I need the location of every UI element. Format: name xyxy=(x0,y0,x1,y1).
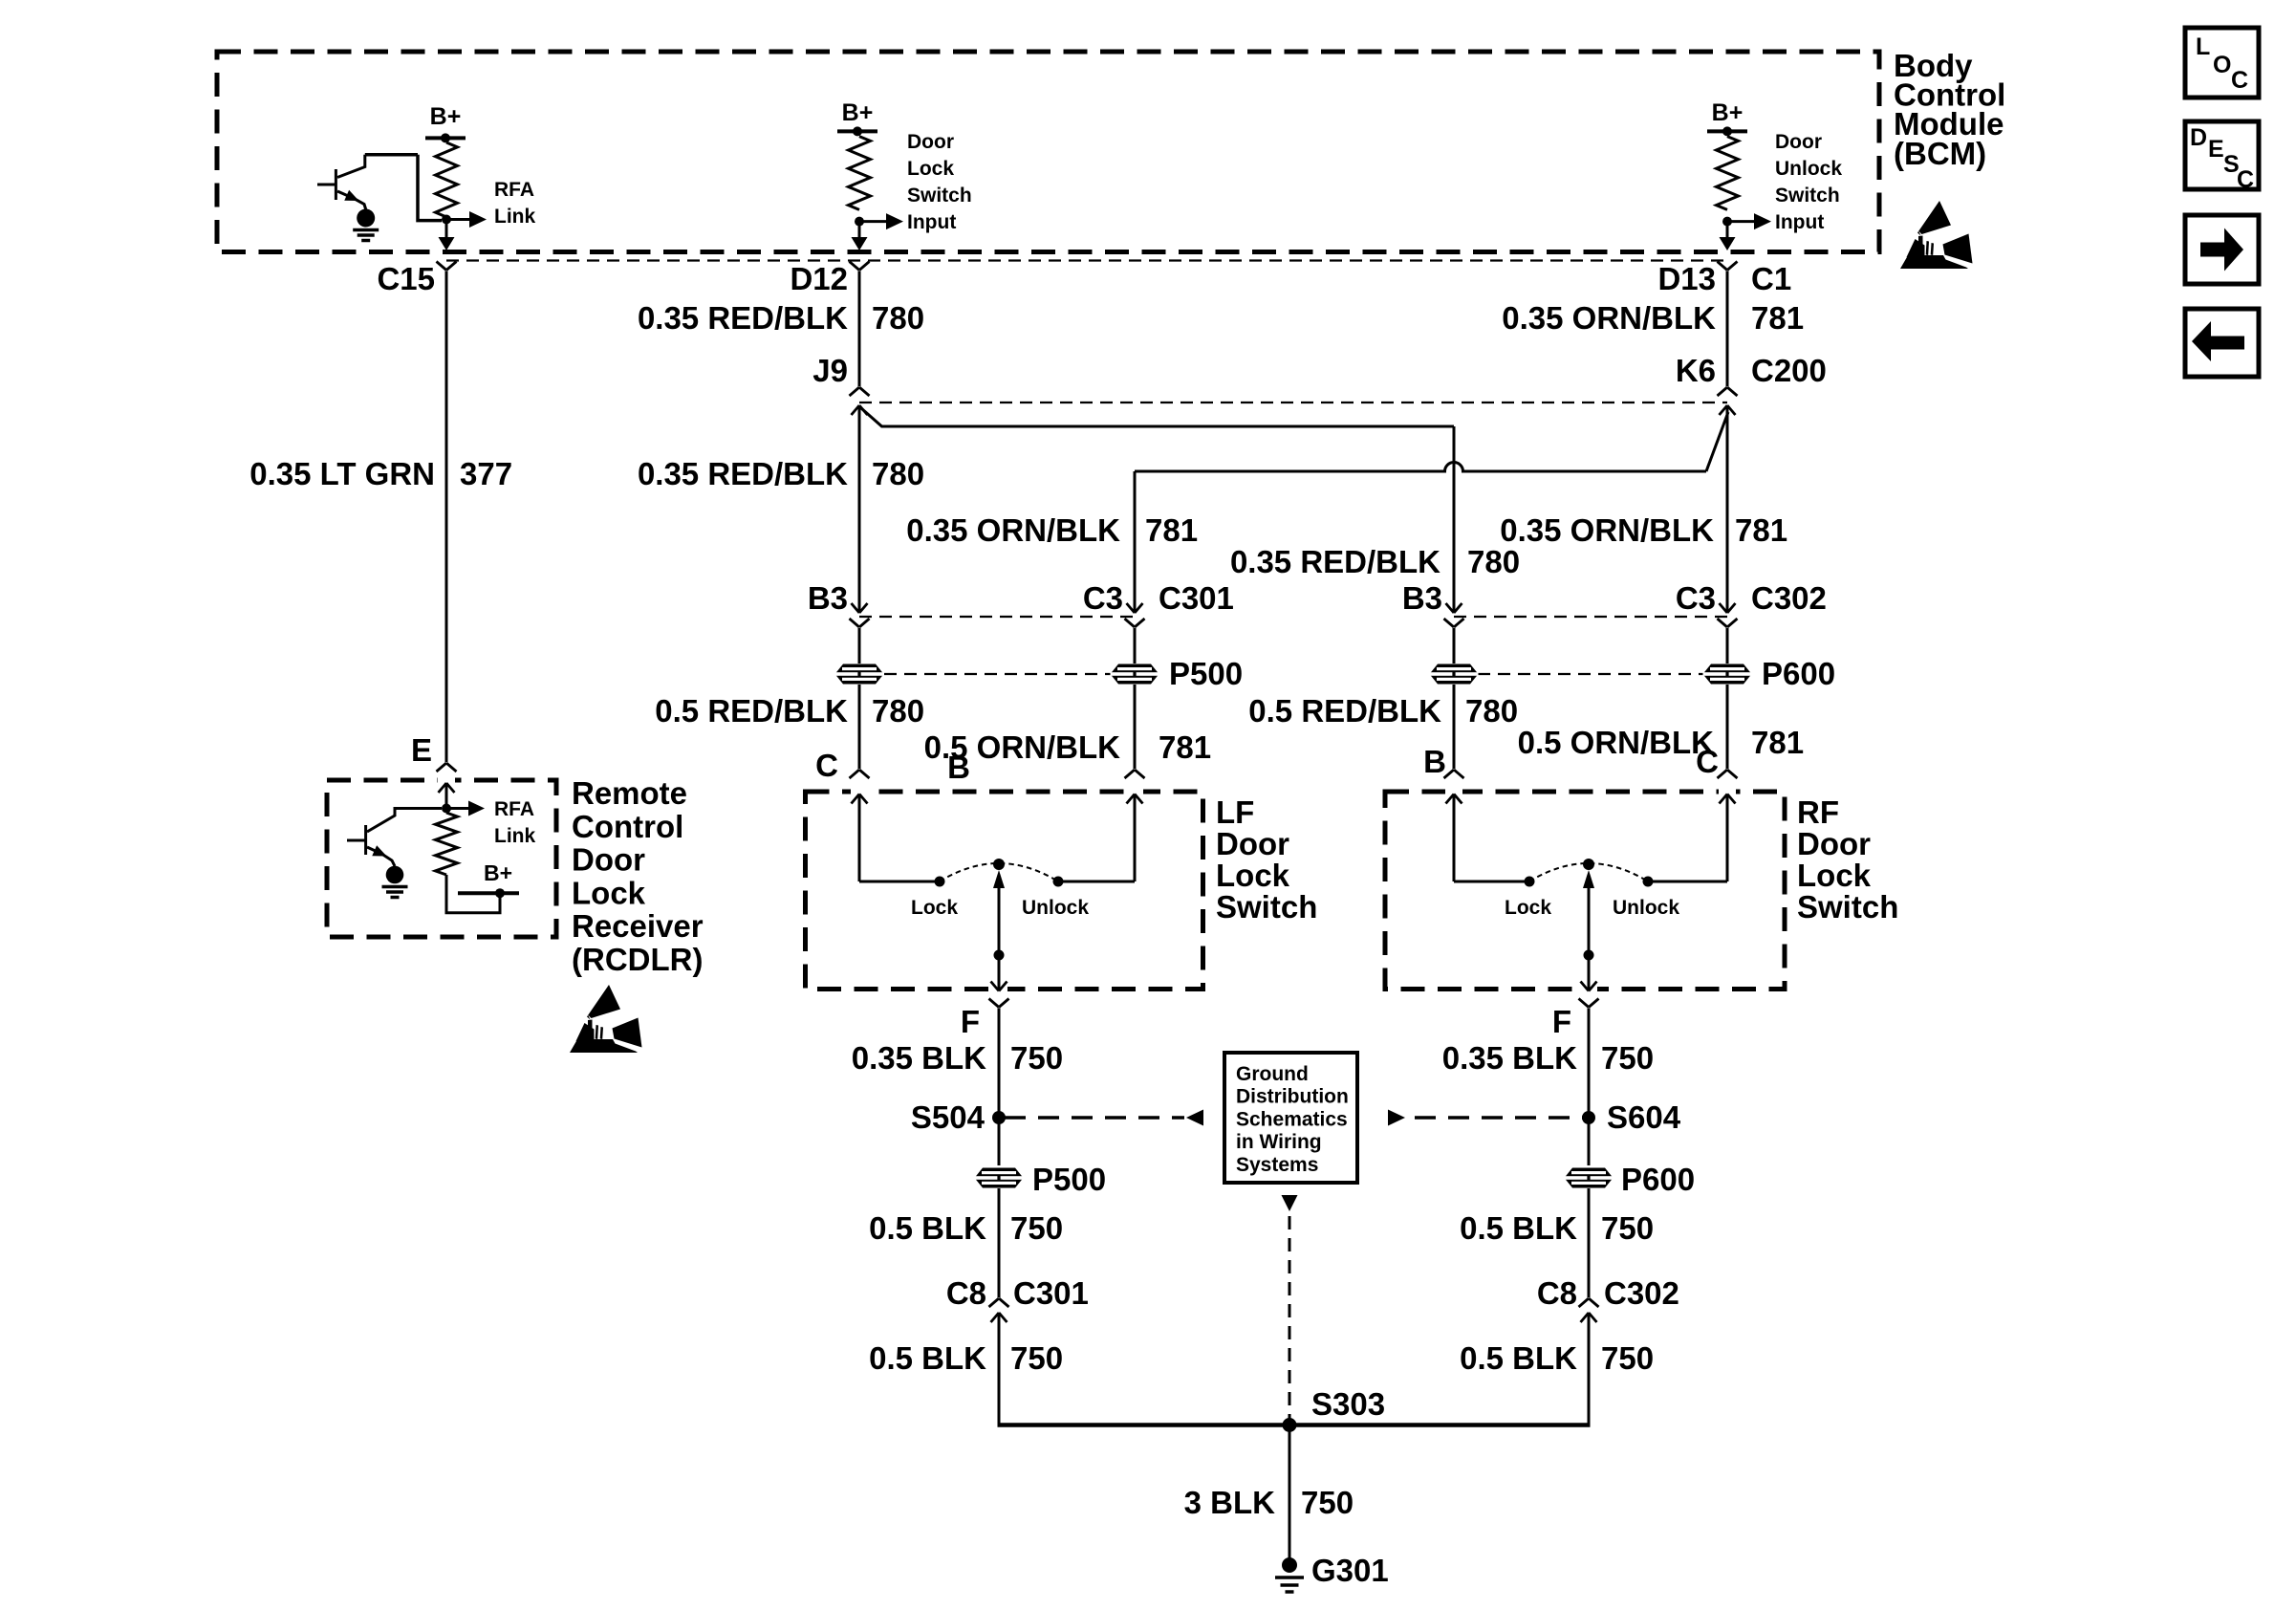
svg-text:C3: C3 xyxy=(1083,580,1123,616)
svg-text:C200: C200 xyxy=(1751,353,1827,388)
svg-text:Unlock: Unlock xyxy=(1022,897,1089,919)
svg-text:Lock: Lock xyxy=(911,897,958,919)
svg-text:in Wiring: in Wiring xyxy=(1236,1131,1322,1153)
svg-text:780: 780 xyxy=(872,456,924,491)
svg-text:C302: C302 xyxy=(1604,1275,1679,1311)
svg-text:B+: B+ xyxy=(842,99,874,126)
svg-text:D12: D12 xyxy=(790,261,848,296)
svg-text:P600: P600 xyxy=(1621,1162,1695,1197)
svg-text:0.35 RED/BLK: 0.35 RED/BLK xyxy=(638,300,848,336)
svg-text:0.35 RED/BLK: 0.35 RED/BLK xyxy=(1230,544,1440,579)
svg-text:C1: C1 xyxy=(1751,261,1791,296)
svg-text:750: 750 xyxy=(1010,1340,1063,1376)
svg-text:780: 780 xyxy=(872,300,924,336)
svg-text:C301: C301 xyxy=(1013,1275,1089,1311)
svg-text:Door: Door xyxy=(1216,826,1289,861)
svg-text:0.5 ORN/BLK: 0.5 ORN/BLK xyxy=(1518,725,1715,760)
svg-text:D13: D13 xyxy=(1657,261,1716,296)
svg-text:780: 780 xyxy=(872,693,924,729)
svg-text:0.35 RED/BLK: 0.35 RED/BLK xyxy=(638,456,848,491)
svg-text:Systems: Systems xyxy=(1236,1154,1318,1176)
svg-text:0.5 BLK: 0.5 BLK xyxy=(869,1210,986,1246)
svg-text:B: B xyxy=(947,750,970,785)
svg-text:Distribution: Distribution xyxy=(1236,1086,1349,1108)
svg-text:781: 781 xyxy=(1751,725,1804,760)
svg-text:C: C xyxy=(2231,67,2248,94)
svg-text:0.35 ORN/BLK: 0.35 ORN/BLK xyxy=(1502,300,1716,336)
svg-text:S303: S303 xyxy=(1311,1386,1385,1422)
svg-text:0.5 RED/BLK: 0.5 RED/BLK xyxy=(655,693,848,729)
svg-text:RFA: RFA xyxy=(494,798,534,820)
svg-text:Switch: Switch xyxy=(1797,889,1898,925)
svg-text:Unlock: Unlock xyxy=(1613,897,1679,919)
svg-text:780: 780 xyxy=(1465,693,1518,729)
svg-text:Lock: Lock xyxy=(1505,897,1551,919)
svg-text:C302: C302 xyxy=(1751,580,1827,616)
svg-text:LF: LF xyxy=(1216,794,1254,830)
svg-text:750: 750 xyxy=(1010,1210,1063,1246)
svg-text:0.5 BLK: 0.5 BLK xyxy=(1460,1340,1577,1376)
svg-text:781: 781 xyxy=(1159,729,1211,765)
svg-text:750: 750 xyxy=(1601,1210,1654,1246)
svg-text:C8: C8 xyxy=(946,1275,986,1311)
svg-text:780: 780 xyxy=(1467,544,1520,579)
svg-text:F: F xyxy=(1552,1004,1571,1039)
svg-text:S504: S504 xyxy=(911,1099,986,1135)
svg-text:Link: Link xyxy=(494,206,535,228)
svg-text:C301: C301 xyxy=(1159,580,1234,616)
svg-text:0.35 LT GRN: 0.35 LT GRN xyxy=(249,456,435,491)
svg-text:L: L xyxy=(2196,33,2210,60)
svg-text:D: D xyxy=(2190,124,2207,151)
svg-text:(RCDLR): (RCDLR) xyxy=(572,942,703,977)
svg-text:Lock: Lock xyxy=(1797,858,1872,893)
svg-text:781: 781 xyxy=(1735,512,1787,548)
svg-text:Control: Control xyxy=(572,809,683,844)
svg-text:E: E xyxy=(411,732,432,768)
svg-text:C3: C3 xyxy=(1676,580,1716,616)
svg-text:J9: J9 xyxy=(812,353,848,388)
svg-text:Ground: Ground xyxy=(1236,1063,1309,1085)
svg-text:RFA: RFA xyxy=(494,179,534,201)
svg-text:Lock: Lock xyxy=(1216,858,1290,893)
svg-text:0.5 BLK: 0.5 BLK xyxy=(869,1340,986,1376)
svg-text:Remote: Remote xyxy=(572,775,687,811)
svg-text:C8: C8 xyxy=(1537,1275,1577,1311)
svg-text:Switch: Switch xyxy=(1216,889,1317,925)
svg-text:0.5 RED/BLK: 0.5 RED/BLK xyxy=(1248,693,1441,729)
svg-text:O: O xyxy=(2213,52,2231,78)
svg-text:3 BLK: 3 BLK xyxy=(1184,1485,1276,1520)
svg-text:(BCM): (BCM) xyxy=(1894,136,1986,171)
svg-text:B+: B+ xyxy=(1712,99,1744,126)
svg-text:B+: B+ xyxy=(430,103,462,130)
svg-text:G301: G301 xyxy=(1311,1553,1389,1588)
svg-text:C: C xyxy=(815,748,838,783)
svg-text:781: 781 xyxy=(1751,300,1804,336)
svg-text:RF: RF xyxy=(1797,794,1839,830)
svg-text:B3: B3 xyxy=(1402,580,1442,616)
svg-text:C: C xyxy=(1696,744,1719,779)
svg-text:750: 750 xyxy=(1301,1485,1354,1520)
svg-text:0.35 BLK: 0.35 BLK xyxy=(852,1040,986,1076)
svg-text:0.5 BLK: 0.5 BLK xyxy=(1460,1210,1577,1246)
svg-text:K6: K6 xyxy=(1676,353,1716,388)
svg-text:0.35 ORN/BLK: 0.35 ORN/BLK xyxy=(1500,512,1714,548)
svg-text:Switch: Switch xyxy=(907,185,972,207)
svg-text:C15: C15 xyxy=(377,261,435,296)
svg-text:P600: P600 xyxy=(1762,656,1835,691)
svg-text:750: 750 xyxy=(1601,1340,1654,1376)
svg-text:C: C xyxy=(2237,166,2254,193)
svg-text:Door: Door xyxy=(907,131,954,153)
svg-text:377: 377 xyxy=(460,456,512,491)
svg-text:Schematics: Schematics xyxy=(1236,1108,1348,1130)
svg-text:750: 750 xyxy=(1010,1040,1063,1076)
svg-text:P500: P500 xyxy=(1169,656,1243,691)
svg-text:S604: S604 xyxy=(1607,1099,1681,1135)
svg-text:B+: B+ xyxy=(484,860,512,885)
svg-text:750: 750 xyxy=(1601,1040,1654,1076)
svg-text:781: 781 xyxy=(1145,512,1198,548)
svg-text:Link: Link xyxy=(494,825,535,847)
svg-text:0.35 BLK: 0.35 BLK xyxy=(1442,1040,1577,1076)
svg-text:Door: Door xyxy=(1797,826,1871,861)
svg-text:F: F xyxy=(961,1004,980,1039)
svg-text:Door: Door xyxy=(1775,131,1822,153)
svg-text:Receiver: Receiver xyxy=(572,908,704,944)
svg-text:Lock: Lock xyxy=(907,158,954,180)
svg-text:Input: Input xyxy=(1775,211,1824,233)
svg-text:Input: Input xyxy=(907,211,956,233)
svg-text:B: B xyxy=(1423,744,1446,779)
svg-text:P500: P500 xyxy=(1032,1162,1106,1197)
svg-text:Door: Door xyxy=(572,842,645,878)
svg-text:E: E xyxy=(2208,136,2224,163)
svg-text:Switch: Switch xyxy=(1775,185,1840,207)
svg-text:Unlock: Unlock xyxy=(1775,158,1842,180)
svg-text:Lock: Lock xyxy=(572,875,646,910)
svg-text:0.35 ORN/BLK: 0.35 ORN/BLK xyxy=(906,512,1120,548)
svg-text:B3: B3 xyxy=(808,580,848,616)
